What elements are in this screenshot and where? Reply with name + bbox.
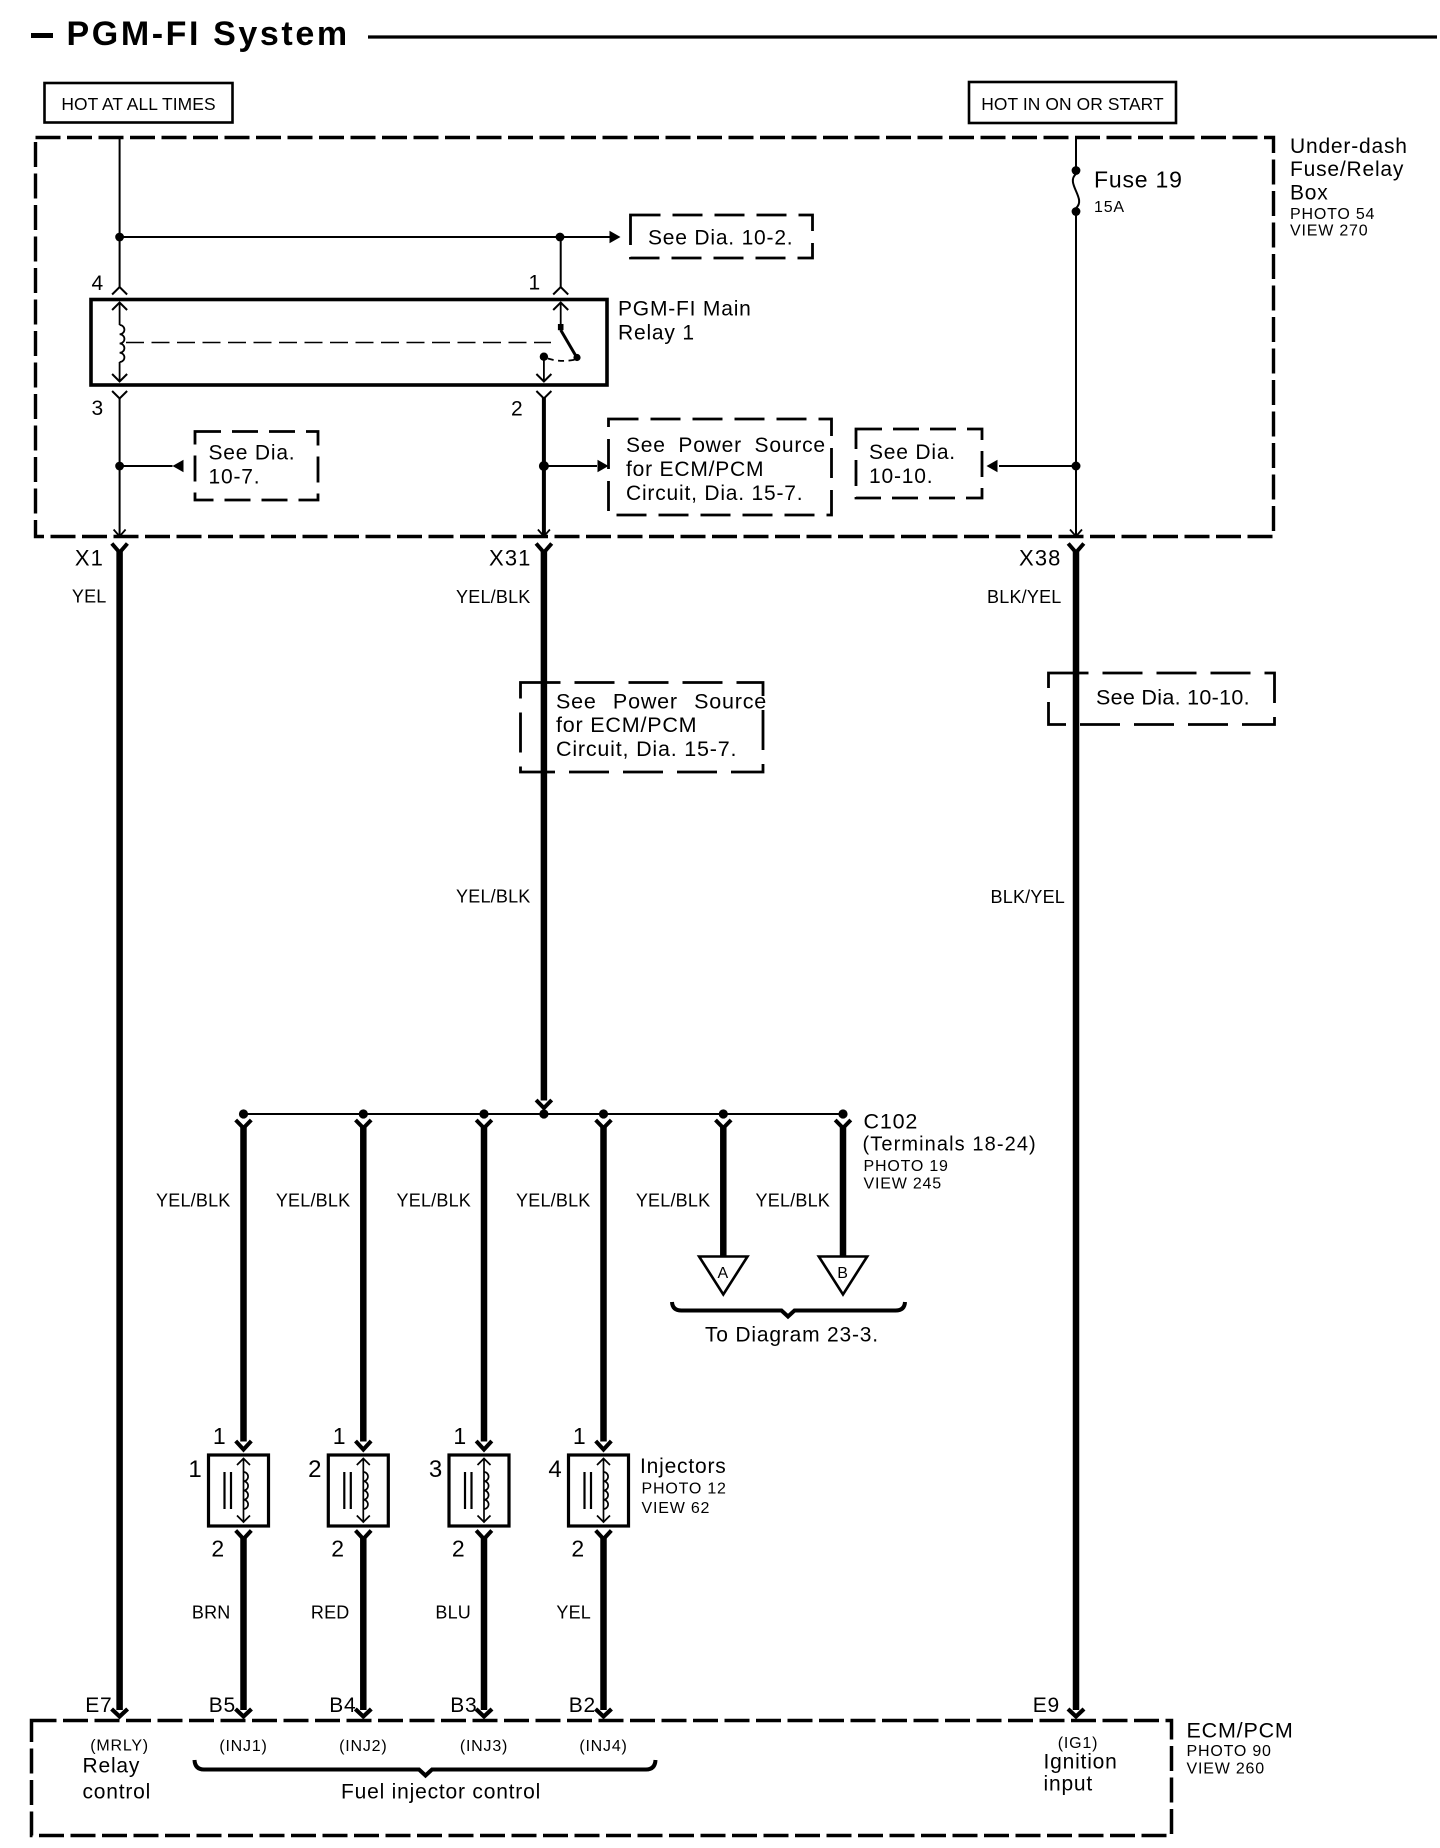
junction dot at See Dia 10-7 tap <box>115 462 124 471</box>
wire: injector 3 to ECM <box>481 1538 488 1711</box>
svg-text:B2: B2 <box>569 1694 596 1717</box>
connector chevron bus drop 4 <box>596 1120 612 1128</box>
svg-text:BLK/YEL: BLK/YEL <box>991 887 1065 907</box>
svg-text:BLU: BLU <box>435 1603 471 1623</box>
svg-text:Box: Box <box>1290 182 1329 205</box>
svg-text:1: 1 <box>529 272 541 295</box>
svg-text:1: 1 <box>573 1423 587 1449</box>
wire: hot-in-on feed into fuse <box>1075 137 1077 171</box>
junction dot at power source tap <box>539 461 549 471</box>
ECM pin function (MRLY) <box>90 1738 149 1755</box>
svg-text:C102: C102 <box>864 1110 919 1134</box>
svg-text:4: 4 <box>92 272 104 295</box>
ECM pin function (INJ3) <box>460 1738 508 1755</box>
injector 1 number label <box>188 1456 202 1483</box>
ECM relay control label <box>83 1755 152 1804</box>
C102 connector label <box>863 1110 1037 1193</box>
ECM pin function (IG1) <box>1058 1735 1098 1752</box>
injector 4 number label <box>548 1456 562 1483</box>
wire color YEL/BLK at X31 <box>456 587 530 607</box>
wire color YEL/BLK drop 1 <box>156 1191 230 1211</box>
injectors group label <box>640 1455 727 1517</box>
svg-text:YEL: YEL <box>72 587 107 607</box>
injector 2 top connector chevron <box>356 1441 372 1450</box>
connector chevron bus drop 3 <box>476 1120 492 1128</box>
svg-text:Fuse 19: Fuse 19 <box>1094 167 1183 193</box>
ECM/PCM box label <box>1187 1719 1294 1778</box>
wire: relay terminal 2 to X31 exit <box>542 397 546 535</box>
wire color RED <box>311 1603 350 1623</box>
connector chevron bus drop 5 <box>716 1120 732 1128</box>
svg-text:HOT AT ALL TIMES: HOT AT ALL TIMES <box>61 94 215 114</box>
wire: tap to See Dia 10-10 (top) <box>987 460 1077 473</box>
svg-text:ECM/PCM: ECM/PCM <box>1187 1719 1294 1743</box>
connector X38 at fuse box exit <box>1019 530 1084 571</box>
ref box See Power Source for ECM/PCM Circuit Dia 15-7 (mid) <box>521 683 768 773</box>
svg-text:1: 1 <box>333 1423 347 1449</box>
connector chevron at ECM terminal B5 <box>236 1709 252 1717</box>
connector chevron at ECM terminal E7 <box>112 1709 128 1717</box>
svg-text:input: input <box>1044 1773 1094 1796</box>
svg-text:Circuit, Dia. 15-7.: Circuit, Dia. 15-7. <box>556 737 737 761</box>
svg-text:1: 1 <box>213 1423 227 1449</box>
svg-text:2: 2 <box>211 1536 225 1562</box>
ECM terminal B4 label <box>329 1694 356 1717</box>
svg-text:See Dia. 10-2.: See Dia. 10-2. <box>648 227 793 250</box>
svg-text:To Diagram 23-3.: To Diagram 23-3. <box>705 1324 879 1347</box>
svg-text:B4: B4 <box>329 1694 356 1717</box>
svg-text:HOT IN ON OR START: HOT IN ON OR START <box>981 94 1164 114</box>
svg-text:(MRLY): (MRLY) <box>90 1738 149 1755</box>
injector 2 body <box>328 1455 388 1526</box>
svg-text:YEL/BLK: YEL/BLK <box>636 1191 710 1211</box>
wire: branch into See Dia 10-2 box <box>560 231 621 244</box>
connector X31 at fuse box exit <box>489 530 552 571</box>
wire: tap across to See Dia 10-2 <box>120 236 560 238</box>
svg-text:RED: RED <box>311 1603 350 1623</box>
wire color BRN <box>192 1603 231 1623</box>
svg-text:B3: B3 <box>450 1694 477 1717</box>
svg-text:2: 2 <box>571 1536 585 1562</box>
label box HOT IN ON OR START <box>969 82 1176 123</box>
wire color YEL/BLK drop 6 <box>756 1191 830 1211</box>
fuse F19 15A <box>1072 166 1183 216</box>
connector chevron at ECM terminal E9 <box>1068 1709 1084 1717</box>
svg-text:Relay: Relay <box>83 1755 141 1778</box>
svg-text:2: 2 <box>308 1456 322 1483</box>
injector 3 body <box>449 1455 509 1526</box>
wire color YEL/BLK mid <box>456 887 530 907</box>
svg-text:X1: X1 <box>75 546 104 571</box>
injector 1 pin 1 label <box>213 1423 227 1449</box>
relay pin 4 label <box>92 272 104 295</box>
brace to diagram 23-3 <box>672 1302 905 1347</box>
svg-text:PHOTO 19: PHOTO 19 <box>864 1158 949 1175</box>
connector chevron: X31 trunk joins bus <box>536 1100 552 1108</box>
ECM terminal B5 label <box>209 1694 236 1717</box>
ECM/PCM box outline <box>32 1721 1172 1836</box>
svg-text:X38: X38 <box>1019 546 1061 571</box>
svg-text:(IG1): (IG1) <box>1058 1735 1098 1752</box>
off-page connector A <box>699 1257 747 1295</box>
wire: bus drop 6 down <box>840 1126 847 1257</box>
wire: relay terminal 3 to X1 exit <box>119 397 121 535</box>
svg-text:2: 2 <box>511 398 523 421</box>
relay K1 PGM-FI Main Relay 1 outline <box>91 300 607 386</box>
wire: bus drop 3 down <box>481 1126 488 1442</box>
connector X1 at fuse box exit <box>75 530 128 571</box>
svg-text:YEL/BLK: YEL/BLK <box>516 1191 590 1211</box>
junction dot on bus drop 1 <box>239 1109 248 1118</box>
svg-text:(INJ2): (INJ2) <box>339 1738 387 1755</box>
svg-text:PGM-FI Main: PGM-FI Main <box>618 298 752 321</box>
svg-text:3: 3 <box>92 397 104 420</box>
title rule <box>368 35 1437 38</box>
wire color YEL/BLK drop 5 <box>636 1191 710 1211</box>
svg-text:(Terminals 18-24): (Terminals 18-24) <box>863 1134 1037 1156</box>
injector 3 top connector chevron <box>476 1441 492 1450</box>
svg-text:A: A <box>718 1265 729 1282</box>
relay pin 1 label <box>529 272 541 295</box>
svg-text:10-7.: 10-7. <box>209 466 261 489</box>
wire: bus drop 4 down <box>600 1126 607 1442</box>
svg-text:(INJ3): (INJ3) <box>460 1738 508 1755</box>
relay switch contact <box>540 303 581 381</box>
relay pin 2 label <box>511 398 523 421</box>
wire color BLU <box>435 1603 471 1623</box>
svg-text:YEL/BLK: YEL/BLK <box>397 1191 471 1211</box>
injector 2 bottom connector chevron <box>356 1531 372 1540</box>
svg-text:YEL: YEL <box>556 1603 591 1623</box>
injector 3 pin 1 label <box>453 1423 467 1449</box>
injector 4 body <box>569 1455 629 1526</box>
injector 4 pin 1 label <box>573 1423 587 1449</box>
svg-text:2: 2 <box>452 1536 466 1562</box>
ECM pin function (INJ2) <box>339 1738 387 1755</box>
injector 2 number label <box>308 1456 322 1483</box>
svg-text:PGM-FI System: PGM-FI System <box>67 15 350 53</box>
wire color YEL/BLK drop 2 <box>276 1191 350 1211</box>
wire: X31 trunk down to injector bus <box>541 551 548 1101</box>
svg-text:(INJ1): (INJ1) <box>219 1738 267 1755</box>
svg-text:See Power Source: See Power Source <box>626 434 826 457</box>
connector chevron at ECM terminal B2 <box>596 1709 612 1717</box>
svg-text:PHOTO 54: PHOTO 54 <box>1290 206 1375 223</box>
junction dot on bus drop 6 <box>838 1109 847 1118</box>
svg-text:X31: X31 <box>489 546 531 571</box>
injector 3 number label <box>429 1456 443 1483</box>
junction dot on fuse wire at See Dia 10-10 tap <box>1072 462 1081 471</box>
svg-text:2: 2 <box>331 1536 345 1562</box>
svg-text:See Power Source: See Power Source <box>556 690 767 714</box>
injector 3 bottom connector chevron <box>476 1531 492 1540</box>
junction dot on bus (feed) <box>539 1109 548 1118</box>
ref box See Dia. 10-10. (mid) <box>1049 673 1275 725</box>
svg-text:VIEW 260: VIEW 260 <box>1187 1761 1265 1778</box>
svg-text:YEL/BLK: YEL/BLK <box>456 887 530 907</box>
wire: bus drop 1 down <box>240 1126 247 1442</box>
bus wire C102 terminals <box>241 1113 845 1115</box>
ref box See Dia. 10-2. <box>631 215 813 258</box>
injector 1 pin 2 label <box>211 1536 225 1562</box>
label box HOT AT ALL TIMES <box>45 83 233 123</box>
svg-text:VIEW 270: VIEW 270 <box>1290 223 1368 240</box>
relay terminal 4 connector chevrons <box>112 287 127 310</box>
wire: X1 trunk down to ECM E7 <box>116 551 123 1710</box>
junction dot on bus drop 3 <box>479 1109 488 1118</box>
svg-text:BRN: BRN <box>192 1603 231 1623</box>
svg-text:for ECM/PCM: for ECM/PCM <box>556 713 697 737</box>
fuel injector control label <box>341 1781 541 1804</box>
svg-text:PHOTO 90: PHOTO 90 <box>1187 1743 1272 1760</box>
injector 4 bottom connector chevron <box>596 1531 612 1540</box>
junction dot on bus drop 4 <box>599 1109 608 1118</box>
junction dot on bus drop 5 <box>719 1109 728 1118</box>
ref box See Dia. 10-7. <box>195 432 318 501</box>
wire color YEL injector 4 <box>556 1603 591 1623</box>
connector chevron bus drop 1 <box>236 1120 252 1128</box>
svg-text:B: B <box>837 1265 848 1282</box>
ECM pin function (INJ1) <box>219 1738 267 1755</box>
injector 1 body <box>209 1455 269 1526</box>
wire color BLK/YEL mid <box>991 887 1065 907</box>
relay pin 3 label <box>92 397 104 420</box>
svg-text:15A: 15A <box>1094 199 1125 216</box>
svg-text:Circuit, Dia. 15-7.: Circuit, Dia. 15-7. <box>626 482 803 505</box>
wire: fuse to X38 exit <box>1075 212 1077 536</box>
injector 2 pin 2 label <box>331 1536 345 1562</box>
wire: injector 4 to ECM <box>600 1538 607 1711</box>
connector chevron bus drop 6 <box>835 1120 851 1128</box>
ECM terminal B3 label <box>450 1694 477 1717</box>
brace fuel injector control <box>195 1760 656 1776</box>
wire: bus drop 2 down <box>360 1126 367 1442</box>
injector 4 top connector chevron <box>596 1441 612 1450</box>
under-dash fuse/relay box label <box>1290 135 1408 240</box>
junction dot on bus drop 2 <box>359 1109 368 1118</box>
ECM terminal B2 label <box>569 1694 596 1717</box>
ECM terminal E9 label <box>1033 1694 1060 1717</box>
svg-text:VIEW 245: VIEW 245 <box>864 1176 942 1193</box>
svg-text:1: 1 <box>188 1456 202 1483</box>
junction dot on feed at See Dia 10-2 tap <box>115 233 124 242</box>
svg-text:See Dia.: See Dia. <box>209 442 296 465</box>
injector 1 bottom connector chevron <box>236 1531 252 1540</box>
wire color YEL/BLK drop 3 <box>397 1191 471 1211</box>
svg-text:10-10.: 10-10. <box>869 465 933 488</box>
wire: X38 trunk down to ECM E9 <box>1073 551 1080 1710</box>
connector chevron at ECM terminal B3 <box>476 1709 492 1717</box>
svg-text:4: 4 <box>548 1456 562 1483</box>
wire: tap to See Dia 10-7 <box>120 460 184 473</box>
off-page connector B <box>819 1257 867 1295</box>
svg-text:for ECM/PCM: for ECM/PCM <box>626 458 764 481</box>
wire: bus drop 5 down <box>720 1126 727 1257</box>
svg-text:YEL/BLK: YEL/BLK <box>276 1191 350 1211</box>
injector 3 pin 2 label <box>452 1536 466 1562</box>
svg-text:E7: E7 <box>85 1694 112 1717</box>
connector chevron bus drop 2 <box>356 1120 372 1128</box>
wire color YEL/BLK drop 4 <box>516 1191 590 1211</box>
ref box See Power Source for ECM/PCM Circuit Dia 15-7 (top) <box>609 419 832 515</box>
wire: injector 1 to ECM <box>240 1538 247 1711</box>
svg-text:See Dia.: See Dia. <box>869 441 956 464</box>
svg-text:See Dia. 10-10.: See Dia. 10-10. <box>1096 686 1250 710</box>
svg-text:1: 1 <box>453 1423 467 1449</box>
wire: tap to See Power Source box <box>544 460 609 473</box>
svg-text:Fuel injector control: Fuel injector control <box>341 1781 541 1804</box>
svg-text:Under-dash: Under-dash <box>1290 135 1408 158</box>
injector 1 top connector chevron <box>236 1441 252 1450</box>
svg-text:(INJ4): (INJ4) <box>579 1738 627 1755</box>
relay internal dashed link <box>126 342 551 344</box>
svg-text:YEL/BLK: YEL/BLK <box>156 1191 230 1211</box>
svg-text:Relay 1: Relay 1 <box>618 322 695 345</box>
svg-text:B5: B5 <box>209 1694 236 1717</box>
relay terminal 2 connector chevrons <box>536 374 551 399</box>
svg-text:Fuse/Relay: Fuse/Relay <box>1290 158 1404 181</box>
ECM terminal E7 label <box>85 1694 112 1717</box>
svg-text:Injectors: Injectors <box>640 1455 727 1478</box>
wire color BLK/YEL at X38 <box>987 587 1061 607</box>
svg-text:YEL/BLK: YEL/BLK <box>456 587 530 607</box>
ref box See Dia. 10-10. (top) <box>856 429 982 498</box>
relay terminal 3 connector chevrons <box>112 374 127 399</box>
svg-text:3: 3 <box>429 1456 443 1483</box>
junction dot at relay terminal 1 branch <box>556 233 565 242</box>
ECM pin function (INJ4) <box>579 1738 627 1755</box>
wire: junction down to relay terminal 1 <box>560 237 562 287</box>
wire: injector 2 to ECM <box>360 1538 367 1711</box>
under-dash fuse/relay box outline <box>36 138 1274 537</box>
svg-text:E9: E9 <box>1033 1694 1060 1717</box>
wire color YEL at X1 <box>72 587 107 607</box>
relay coil <box>120 303 125 382</box>
relay name label <box>618 298 752 345</box>
ECM ignition input label <box>1044 1751 1118 1796</box>
svg-text:YEL/BLK: YEL/BLK <box>756 1191 830 1211</box>
svg-text:BLK/YEL: BLK/YEL <box>987 587 1061 607</box>
svg-text:PHOTO 12: PHOTO 12 <box>642 1481 727 1498</box>
svg-text:Ignition: Ignition <box>1044 1751 1118 1774</box>
injector 4 pin 2 label <box>571 1536 585 1562</box>
svg-text:VIEW 62: VIEW 62 <box>642 1500 711 1517</box>
relay terminal 1 connector chevrons <box>553 287 568 310</box>
svg-text:control: control <box>83 1781 152 1804</box>
wire: hot-at-all-times feed to relay terminal 4 <box>119 137 121 287</box>
connector chevron at ECM terminal B4 <box>355 1709 371 1717</box>
title: PGM-FI System <box>31 15 350 53</box>
injector 2 pin 1 label <box>333 1423 347 1449</box>
